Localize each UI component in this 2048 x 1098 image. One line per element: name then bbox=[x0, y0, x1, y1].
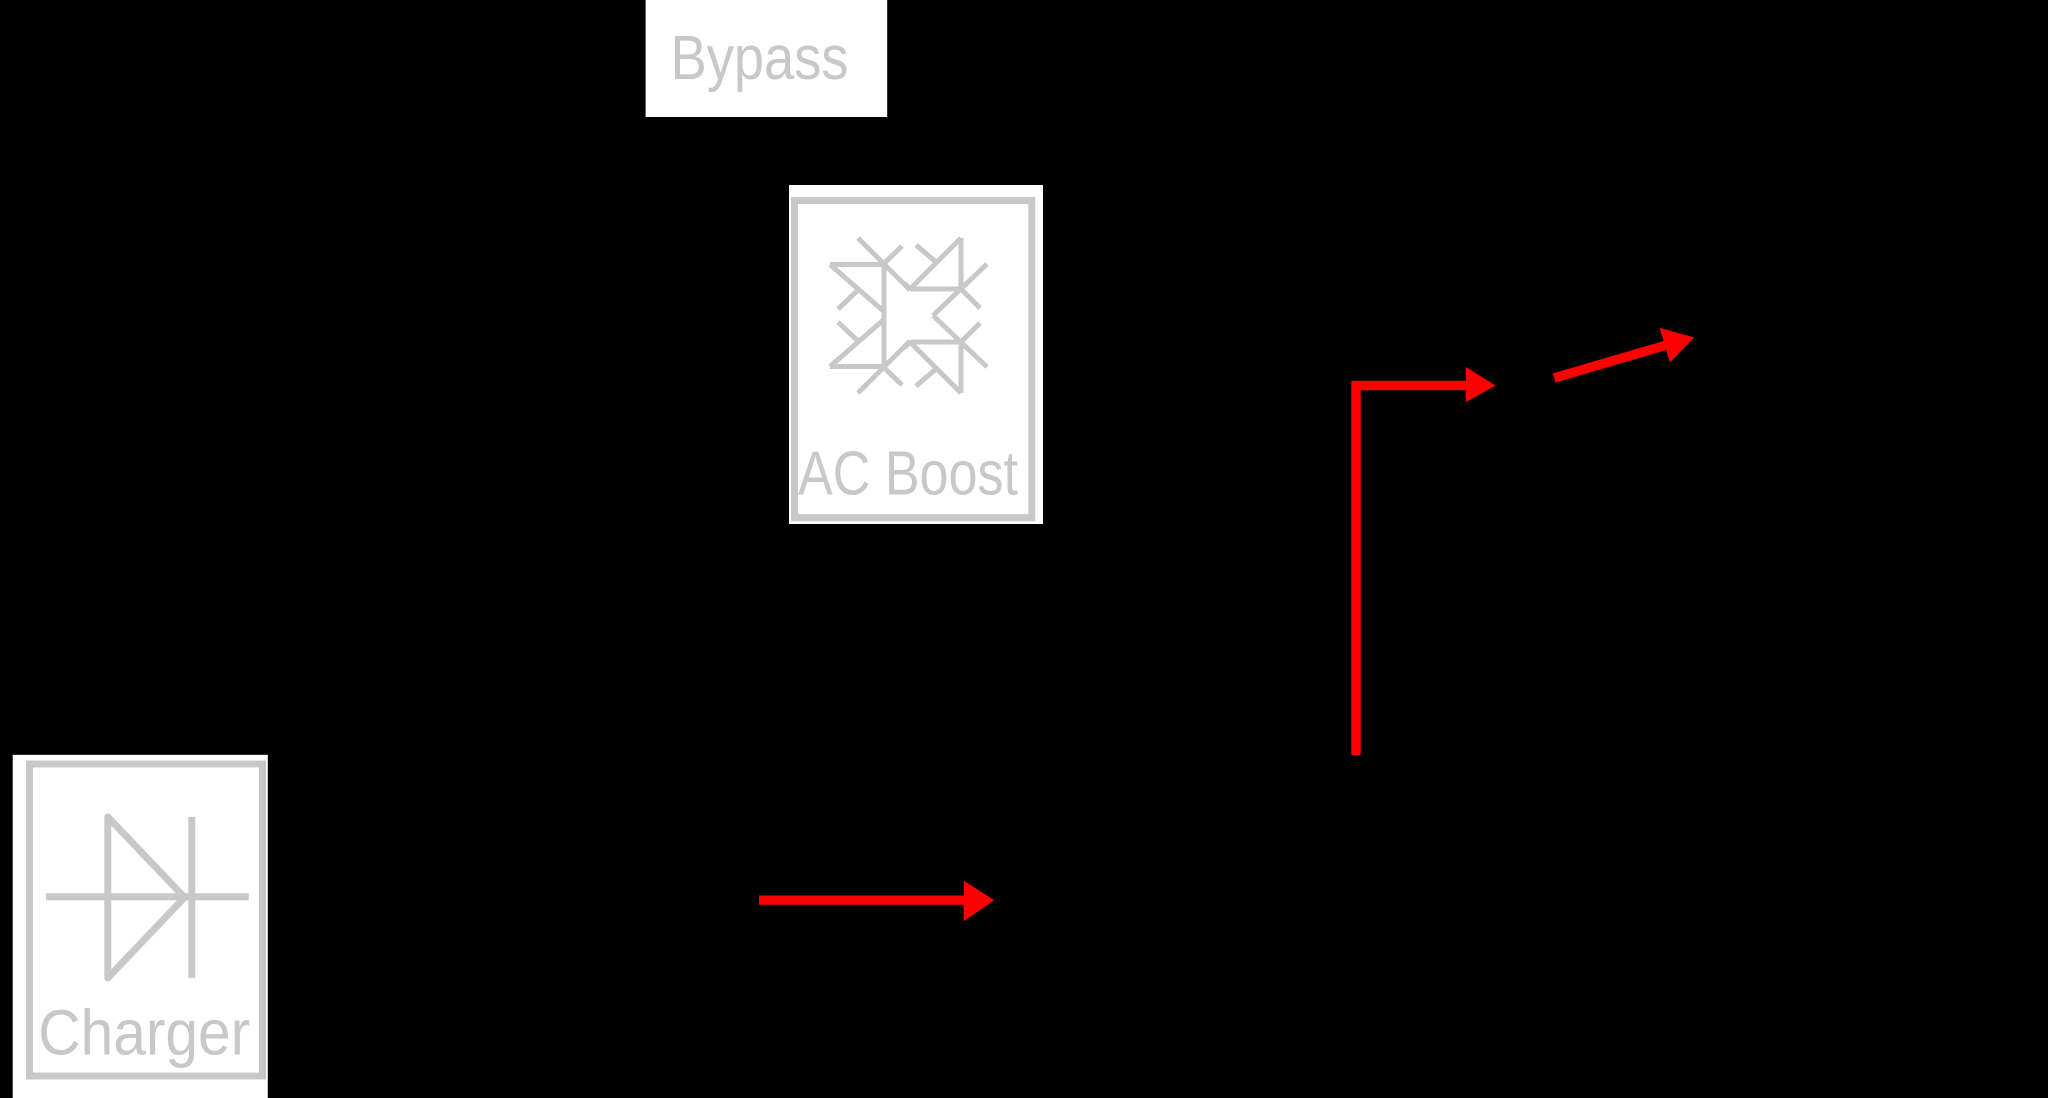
red flow arrow: diagonal up-right to output bbox=[1554, 328, 1694, 378]
svg-text:AC Boost: AC Boost bbox=[798, 440, 1018, 509]
charger box bbox=[13, 755, 268, 1098]
red flow arrow: charger to inverter (horizontal) bbox=[759, 881, 994, 922]
svg-text:Charger: Charger bbox=[38, 996, 250, 1068]
AC boost box border bbox=[795, 201, 1032, 518]
diode D1 (charger icon) bbox=[46, 817, 249, 978]
red flow arrow: elbow up then right bbox=[1356, 367, 1496, 755]
AC boost icon bbox=[830, 238, 987, 393]
bypass box bbox=[646, 0, 888, 117]
charger box border bbox=[30, 764, 263, 1076]
AC boost box bbox=[789, 185, 1043, 524]
svg-text:Bypass: Bypass bbox=[671, 24, 849, 93]
